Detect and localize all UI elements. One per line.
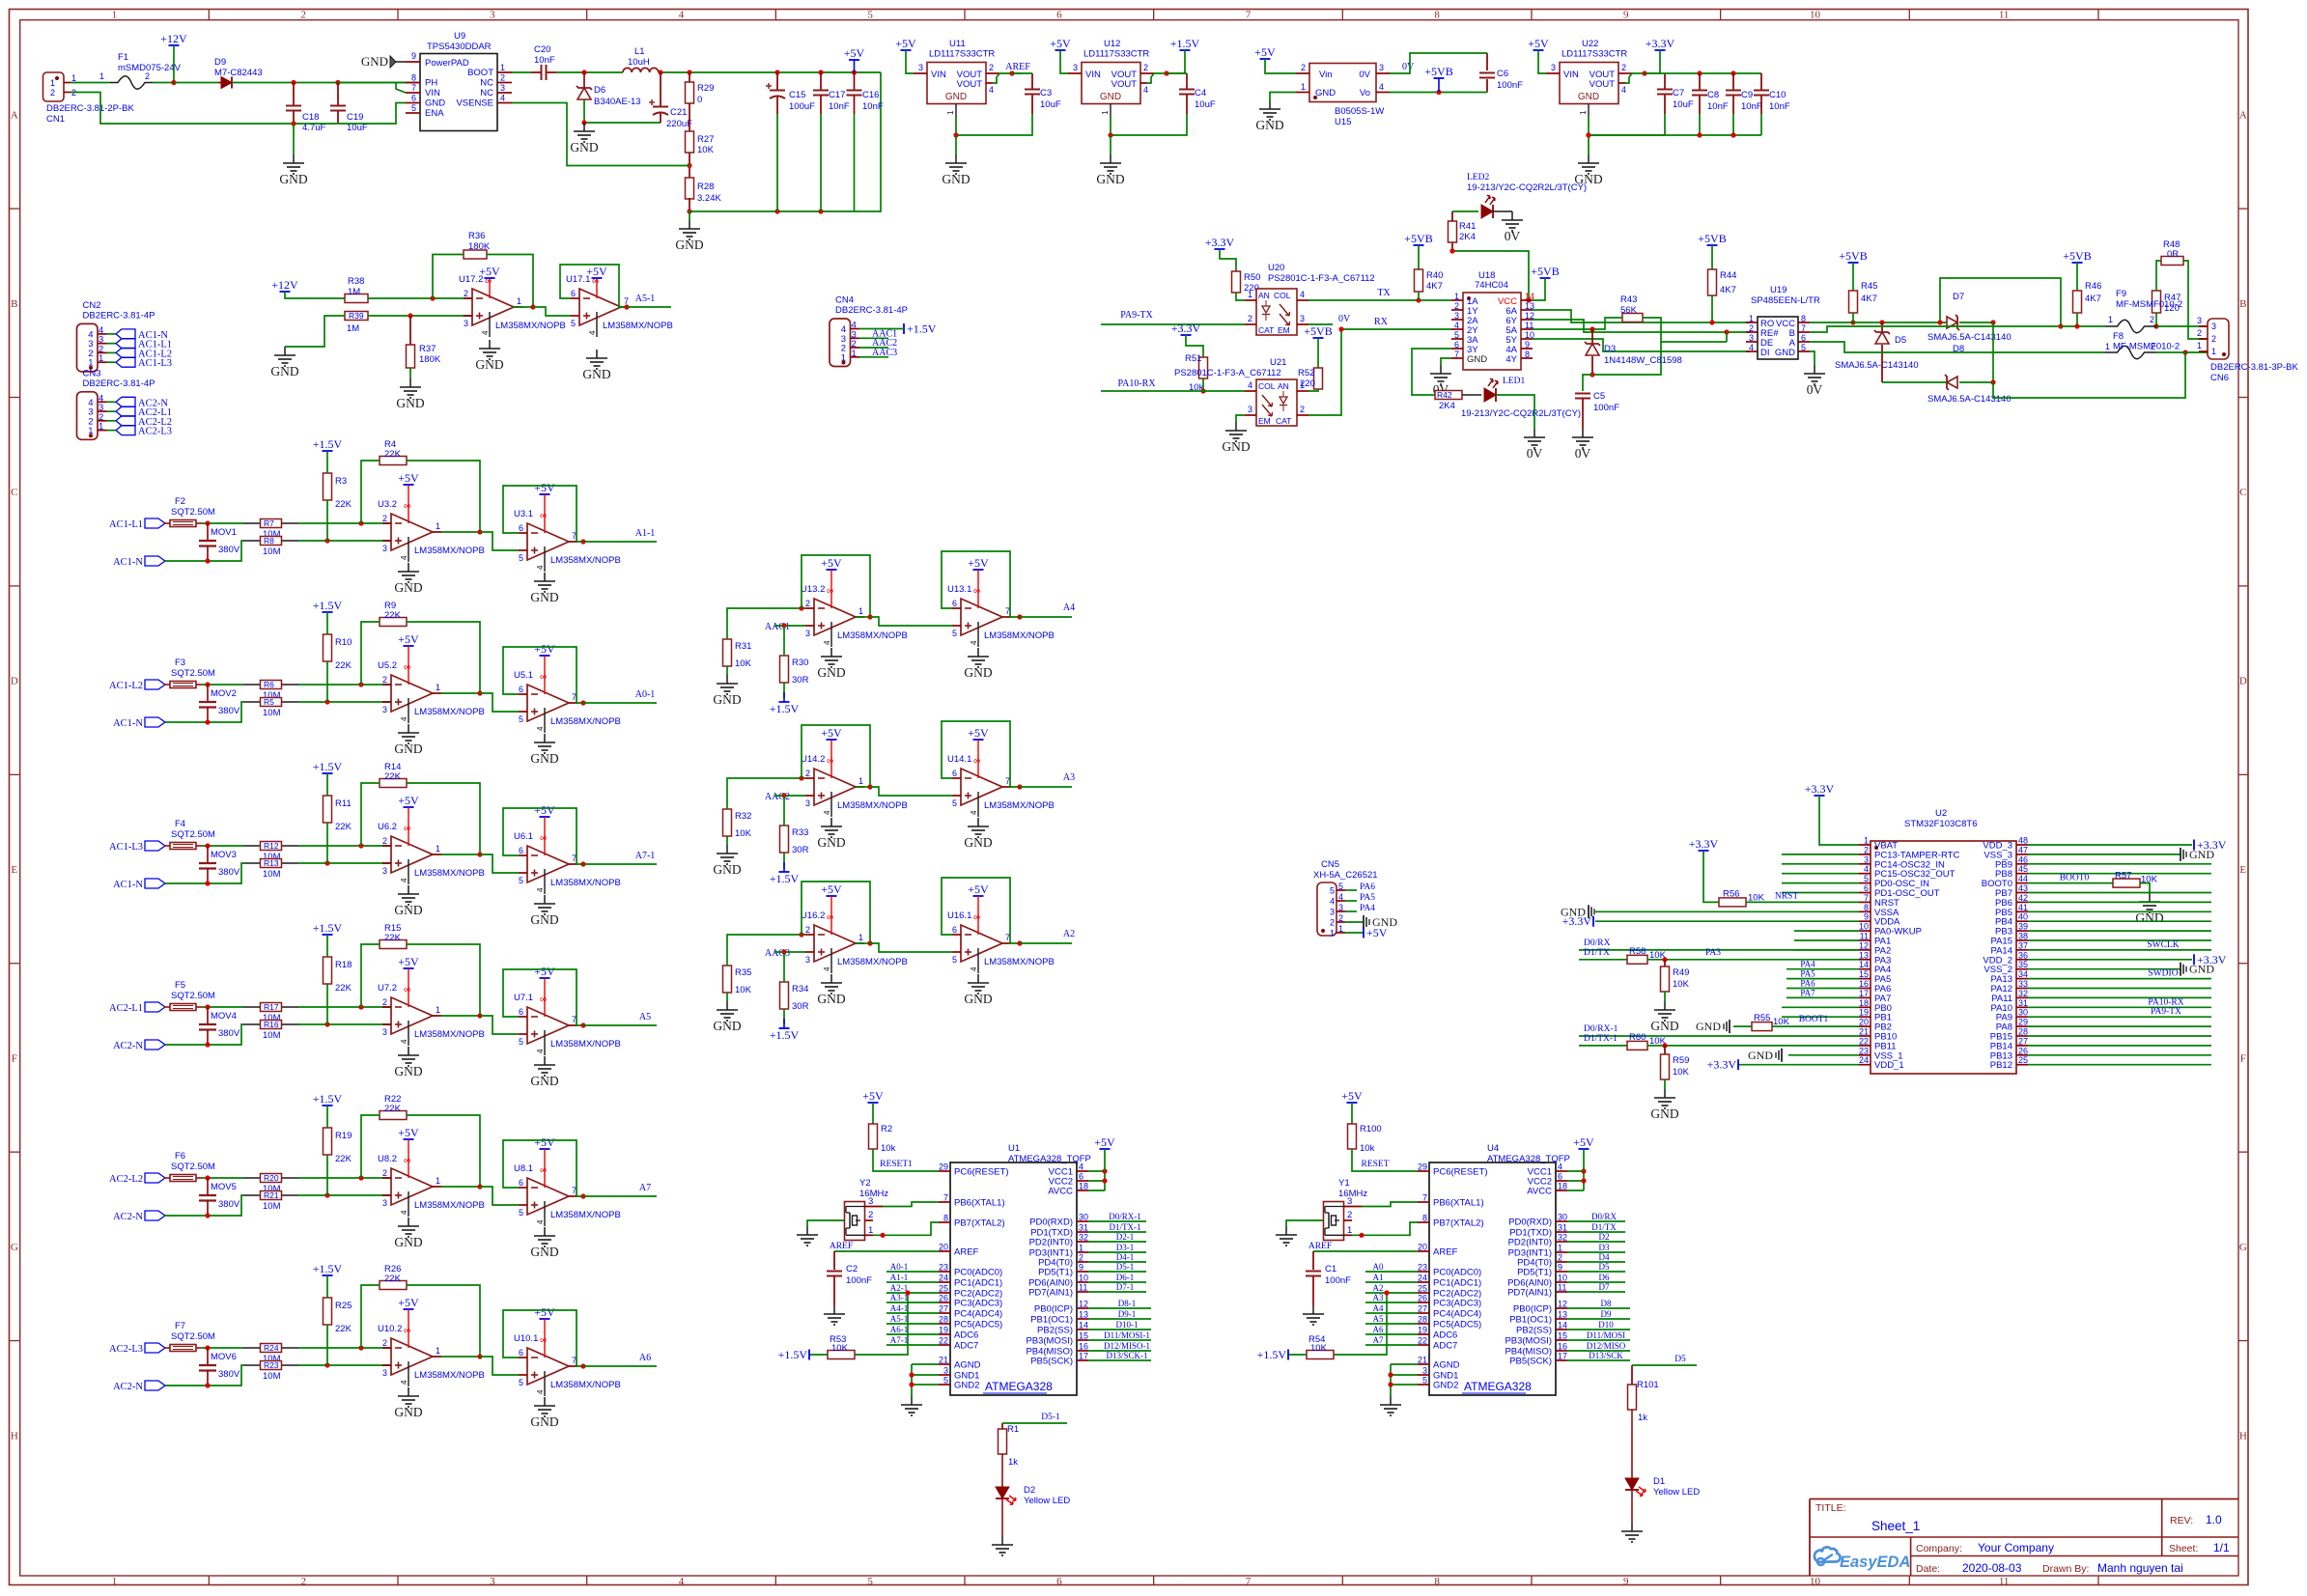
svg-text:+1.5V: +1.5V xyxy=(778,1348,808,1361)
svg-text:R52: R52 xyxy=(1298,368,1314,378)
svg-text:B: B xyxy=(2239,298,2246,310)
svg-text:0V: 0V xyxy=(1359,70,1370,80)
junction xyxy=(171,80,176,85)
wire xyxy=(70,93,338,125)
svg-text:22: 22 xyxy=(1418,1336,1427,1346)
wire xyxy=(407,783,480,854)
junction xyxy=(358,843,363,848)
capacitor C15 polarized xyxy=(766,72,815,114)
svg-text:R55: R55 xyxy=(1754,1013,1770,1023)
svg-text:19: 19 xyxy=(1859,1008,1869,1018)
svg-text:+5V: +5V xyxy=(862,1089,884,1103)
svg-text:PD5(T1): PD5(T1) xyxy=(1517,1268,1552,1278)
ground xyxy=(1255,100,1283,132)
svg-text:5: 5 xyxy=(1864,874,1869,883)
junction xyxy=(818,70,823,74)
net label RESET1 xyxy=(880,1160,913,1169)
svg-text:D: D xyxy=(11,676,18,687)
svg-text:9: 9 xyxy=(411,51,416,61)
svg-text:AREF: AREF xyxy=(1308,1242,1332,1251)
power +3.3V flag xyxy=(1205,236,1235,249)
wire xyxy=(1088,1350,1151,1352)
svg-text:GND: GND xyxy=(530,590,558,604)
svg-text:+1.5V: +1.5V xyxy=(313,921,343,935)
ground xyxy=(964,974,992,1006)
svg-text:+1.5V: +1.5V xyxy=(313,1092,343,1106)
net label SWDIO xyxy=(2148,969,2178,979)
svg-text:CN2: CN2 xyxy=(83,300,101,311)
title block xyxy=(1810,1499,2238,1577)
svg-text:GND: GND xyxy=(1748,1049,1773,1062)
junction xyxy=(581,120,586,125)
wire xyxy=(361,944,380,1007)
svg-text:D0/RX-1: D0/RX-1 xyxy=(1584,1024,1618,1034)
net label D2 xyxy=(1599,1232,1610,1242)
wire xyxy=(1782,892,1859,894)
wire xyxy=(1020,786,1072,788)
svg-text:R46: R46 xyxy=(2085,281,2101,292)
svg-text:VOUT: VOUT xyxy=(1111,79,1138,90)
wire xyxy=(1365,1312,1418,1314)
svg-text:+1.5V: +1.5V xyxy=(907,322,937,336)
ground xyxy=(530,1227,558,1259)
svg-text:R24: R24 xyxy=(264,1343,279,1353)
junction xyxy=(909,1372,914,1377)
resistor R59 xyxy=(1661,1046,1690,1079)
svg-text:7: 7 xyxy=(943,1193,948,1203)
net flag AC2-N xyxy=(113,1040,165,1051)
svg-text:R38: R38 xyxy=(348,276,364,287)
svg-text:MOV1: MOV1 xyxy=(211,527,237,538)
wire xyxy=(1567,1241,1625,1243)
IC U19 SP485EEN xyxy=(1746,285,1820,359)
svg-text:GND: GND xyxy=(1650,1106,1678,1121)
svg-text:R6: R6 xyxy=(264,680,274,689)
svg-text:LM358MX/NOPB: LM358MX/NOPB xyxy=(837,800,908,811)
svg-text:EasyEDA: EasyEDA xyxy=(1840,1554,1910,1571)
wire xyxy=(1220,249,1236,271)
power +5V flag xyxy=(534,1305,555,1319)
svg-text:VIN: VIN xyxy=(931,70,946,80)
svg-text:DB2ERC-3.81-4P: DB2ERC-3.81-4P xyxy=(83,310,155,321)
svg-text:AREF: AREF xyxy=(1433,1247,1458,1258)
wire xyxy=(855,1293,908,1355)
net flag AC1-N xyxy=(116,329,168,341)
svg-text:C16: C16 xyxy=(862,90,879,100)
ground 0V xyxy=(1524,429,1545,461)
wire xyxy=(2156,261,2161,291)
svg-text:3: 3 xyxy=(490,1576,495,1587)
power +5V flag xyxy=(968,726,989,740)
wire xyxy=(1647,959,1859,961)
junction xyxy=(781,949,786,954)
svg-text:C18: C18 xyxy=(302,112,319,123)
svg-text:28: 28 xyxy=(2018,1027,2028,1037)
svg-text:D10: D10 xyxy=(1598,1320,1614,1330)
svg-text:ATMEGA328: ATMEGA328 xyxy=(985,1380,1053,1393)
svg-text:3: 3 xyxy=(805,629,810,638)
wire xyxy=(441,692,480,694)
resistor R45 xyxy=(1849,281,1878,313)
wire xyxy=(338,103,406,125)
svg-text:U8.2: U8.2 xyxy=(378,1154,397,1164)
wire xyxy=(1787,978,1859,980)
wire xyxy=(1664,1079,1666,1089)
svg-text:U13.1: U13.1 xyxy=(947,584,971,595)
wire xyxy=(1186,335,1203,357)
wire xyxy=(689,198,690,211)
svg-text:LM358MX/NOPB: LM358MX/NOPB xyxy=(414,1200,485,1211)
svg-text:COL: COL xyxy=(1258,381,1276,391)
wire xyxy=(955,135,957,154)
junction xyxy=(205,1175,210,1180)
svg-text:2: 2 xyxy=(2150,315,2154,324)
svg-text:D13/SCK-1: D13/SCK-1 xyxy=(1106,1351,1147,1360)
svg-text:6: 6 xyxy=(952,599,957,608)
junction xyxy=(477,529,482,534)
svg-text:A3-1: A3-1 xyxy=(890,1293,909,1302)
svg-text:AGND: AGND xyxy=(954,1360,981,1371)
junction xyxy=(324,860,329,865)
ground xyxy=(530,895,558,927)
resistor R31 xyxy=(723,639,752,669)
svg-text:LD1117S33CTR: LD1117S33CTR xyxy=(1083,49,1149,60)
junction xyxy=(291,121,295,126)
wire xyxy=(243,1194,298,1196)
resistor R51 xyxy=(1185,353,1208,393)
wire xyxy=(1788,1054,1859,1056)
svg-text:1: 1 xyxy=(2105,342,2110,351)
svg-text:4: 4 xyxy=(1338,892,1343,902)
svg-text:7: 7 xyxy=(1454,350,1459,359)
svg-text:22K: 22K xyxy=(384,1274,402,1284)
svg-text:∞: ∞ xyxy=(540,672,547,683)
wire xyxy=(977,740,979,761)
wire xyxy=(165,1195,243,1216)
junction xyxy=(1586,132,1590,137)
svg-text:CN1: CN1 xyxy=(46,114,65,125)
svg-text:VIN: VIN xyxy=(425,88,440,98)
svg-text:5: 5 xyxy=(1338,882,1343,891)
connector CN6 xyxy=(2197,316,2298,383)
svg-text:2: 2 xyxy=(1558,1253,1562,1263)
svg-text:10K: 10K xyxy=(1673,979,1690,990)
svg-text:PB3(MOSI): PB3(MOSI) xyxy=(1026,1336,1073,1347)
svg-text:+3.3V: +3.3V xyxy=(1707,1058,1737,1072)
inductor L1 xyxy=(623,46,659,72)
power +5V flag xyxy=(895,37,916,50)
svg-text:25: 25 xyxy=(939,1284,948,1294)
svg-text:31: 31 xyxy=(1558,1223,1567,1233)
svg-text:A4: A4 xyxy=(1063,602,1075,613)
ground xyxy=(530,573,558,604)
svg-text:Y2: Y2 xyxy=(859,1178,871,1189)
svg-text:4: 4 xyxy=(536,565,545,570)
resistor R29 xyxy=(686,72,715,105)
wire xyxy=(1583,1149,1585,1171)
wire xyxy=(774,951,805,953)
svg-text:3: 3 xyxy=(500,83,505,93)
wire xyxy=(368,315,472,317)
IC U15 B0505S-1W xyxy=(1296,63,1390,127)
op-amp U8.1 xyxy=(514,1163,621,1226)
svg-text:A0: A0 xyxy=(1373,1262,1384,1272)
net flag AC1-N xyxy=(113,556,165,568)
svg-text:R44: R44 xyxy=(1720,270,1736,281)
diode D7 xyxy=(1947,292,1964,330)
wire xyxy=(298,1177,391,1179)
svg-text:25: 25 xyxy=(1418,1284,1427,1294)
svg-text:3: 3 xyxy=(382,705,387,714)
wire xyxy=(1236,415,1245,422)
wire xyxy=(1632,72,1654,74)
junction xyxy=(477,1354,482,1358)
svg-text:2: 2 xyxy=(382,675,387,685)
svg-text:3: 3 xyxy=(943,1366,948,1376)
wire xyxy=(480,1357,519,1375)
svg-text:8: 8 xyxy=(1434,10,1440,21)
svg-text:U7.1: U7.1 xyxy=(514,993,533,1003)
svg-text:∞: ∞ xyxy=(540,833,547,844)
wire xyxy=(689,211,690,220)
power +5V flag xyxy=(479,265,500,278)
svg-text:+1.5V: +1.5V xyxy=(313,760,343,773)
svg-text:EM: EM xyxy=(1258,416,1271,426)
wire xyxy=(1533,310,1750,322)
svg-text:45: 45 xyxy=(2018,864,2028,874)
net label D4-1 xyxy=(1116,1252,1135,1262)
svg-text:2: 2 xyxy=(1248,314,1252,323)
wire xyxy=(361,783,380,846)
svg-text:H: H xyxy=(2239,1430,2247,1442)
svg-text:U16.1: U16.1 xyxy=(947,910,971,921)
wire xyxy=(1088,1318,1151,1320)
net flag AC2-L3 xyxy=(116,426,172,437)
wire xyxy=(1631,1490,1633,1523)
svg-text:13: 13 xyxy=(1079,1310,1088,1320)
svg-text:2: 2 xyxy=(382,1168,387,1178)
svg-text:2: 2 xyxy=(300,10,306,21)
net label D2-1 xyxy=(1116,1232,1135,1242)
ground xyxy=(817,648,845,680)
wire xyxy=(1732,114,1734,135)
wire xyxy=(689,153,690,178)
svg-text:LM358MX/NOPB: LM358MX/NOPB xyxy=(603,321,673,331)
svg-text:GND: GND xyxy=(713,1019,741,1033)
svg-text:Company:: Company: xyxy=(1916,1543,1962,1554)
svg-text:4: 4 xyxy=(400,878,408,882)
wire xyxy=(1345,889,1357,891)
wire xyxy=(1661,341,1727,343)
ground flag xyxy=(1589,905,1594,918)
svg-text:1: 1 xyxy=(99,71,104,81)
svg-text:10uH: 10uH xyxy=(628,57,650,68)
wire xyxy=(2028,863,2211,865)
junction xyxy=(205,1213,210,1218)
svg-text:+3.3V: +3.3V xyxy=(1171,322,1201,335)
svg-text:22K: 22K xyxy=(335,499,352,510)
svg-text:R60: R60 xyxy=(1629,1032,1646,1043)
svg-text:GND: GND xyxy=(530,751,558,766)
wire xyxy=(2156,351,2208,353)
svg-text:+5VB: +5VB xyxy=(1424,65,1452,78)
svg-text:29: 29 xyxy=(1418,1162,1427,1172)
svg-text:8: 8 xyxy=(1801,314,1806,323)
junction xyxy=(580,1193,585,1198)
svg-text:PC6(RESET): PC6(RESET) xyxy=(1433,1167,1487,1178)
svg-text:XH-5A_C26521: XH-5A_C26521 xyxy=(1313,870,1378,881)
wire xyxy=(1567,1329,1630,1330)
wire xyxy=(433,255,464,299)
wire xyxy=(174,82,218,84)
IC U18 74HC04 xyxy=(1451,270,1534,370)
wire xyxy=(243,845,298,847)
svg-text:R100: R100 xyxy=(1360,1124,1382,1134)
junction xyxy=(291,80,295,85)
svg-text:VSENSE: VSENSE xyxy=(456,98,493,109)
wire xyxy=(165,1365,243,1386)
wire xyxy=(1020,942,1072,944)
svg-text:+5V: +5V xyxy=(821,726,842,740)
junction xyxy=(1581,1178,1586,1183)
svg-text:1: 1 xyxy=(852,349,857,359)
svg-text:AC2-L1: AC2-L1 xyxy=(109,1003,143,1014)
wire xyxy=(993,73,999,83)
resistor R57 xyxy=(2113,871,2158,888)
svg-text:LM358MX/NOPB: LM358MX/NOPB xyxy=(414,1370,485,1381)
svg-text:D2-1: D2-1 xyxy=(1116,1232,1135,1242)
junction xyxy=(205,719,210,724)
svg-text:11: 11 xyxy=(1999,10,2010,21)
svg-text:3: 3 xyxy=(1454,311,1459,321)
wire xyxy=(1088,1231,1146,1233)
power +3.3V flag xyxy=(1646,37,1675,50)
svg-text:5: 5 xyxy=(519,714,523,724)
svg-text:SP485EEN-L/TR: SP485EEN-L/TR xyxy=(1751,295,1820,306)
svg-text:6: 6 xyxy=(411,94,416,103)
ground xyxy=(530,1397,558,1429)
net flag AC1-L3 xyxy=(116,357,172,369)
op-amp U14.2 xyxy=(801,754,908,817)
svg-text:U13.2: U13.2 xyxy=(801,584,825,595)
svg-text:+1.5V: +1.5V xyxy=(313,599,343,612)
resistor R36 xyxy=(464,231,491,259)
svg-text:2: 2 xyxy=(989,63,994,72)
ground xyxy=(1621,1523,1643,1542)
svg-text:0V: 0V xyxy=(1505,229,1521,243)
diode D5 xyxy=(1874,330,1906,346)
svg-text:VOUT: VOUT xyxy=(1590,79,1616,90)
wire xyxy=(868,356,888,358)
svg-text:R5: R5 xyxy=(264,697,274,707)
svg-text:B: B xyxy=(11,298,17,310)
svg-text:9: 9 xyxy=(1079,1263,1083,1273)
wire xyxy=(1810,351,1815,365)
svg-text:AC1-L3: AC1-L3 xyxy=(138,358,172,369)
resistor R101 xyxy=(1628,1365,1659,1423)
svg-text:26: 26 xyxy=(939,1294,948,1303)
svg-text:0V: 0V xyxy=(1807,382,1823,397)
svg-text:+3.3V: +3.3V xyxy=(1689,837,1719,851)
svg-text:R33: R33 xyxy=(792,827,808,838)
svg-text:R25: R25 xyxy=(335,1301,352,1311)
net label A3 xyxy=(1063,772,1075,783)
net label D7 xyxy=(1599,1282,1610,1292)
wire xyxy=(1582,399,1584,429)
svg-text:3: 3 xyxy=(490,10,495,21)
svg-text:220: 220 xyxy=(1300,378,1315,389)
wire xyxy=(1452,210,1478,212)
svg-text:12: 12 xyxy=(1859,940,1869,950)
resistor R39 xyxy=(345,311,368,334)
svg-text:10K: 10K xyxy=(1310,1343,1328,1354)
svg-text:D9-1: D9-1 xyxy=(1118,1309,1137,1319)
svg-text:+5VB: +5VB xyxy=(1304,324,1332,338)
svg-text:16: 16 xyxy=(1079,1342,1088,1352)
svg-text:D3: D3 xyxy=(1599,1243,1610,1252)
resistor R28 xyxy=(686,178,722,204)
resistor R19 xyxy=(324,1128,352,1164)
svg-text:10uF: 10uF xyxy=(1195,99,1216,110)
junction xyxy=(580,1022,585,1027)
svg-text:6: 6 xyxy=(519,1348,523,1358)
svg-text:C19: C19 xyxy=(347,112,363,123)
svg-text:+5V: +5V xyxy=(534,1305,555,1319)
svg-text:A: A xyxy=(11,109,18,121)
op-amp U6.1 xyxy=(514,831,621,894)
wire xyxy=(441,531,480,533)
wire xyxy=(396,83,406,94)
ground xyxy=(817,818,845,850)
wire xyxy=(883,1202,939,1207)
svg-text:DB2ERC-3.81-4P: DB2ERC-3.81-4P xyxy=(83,378,155,389)
svg-text:42: 42 xyxy=(2018,893,2028,903)
svg-text:3: 3 xyxy=(1551,63,1556,72)
capacitor C5 xyxy=(1575,391,1619,413)
svg-text:D8-1: D8-1 xyxy=(1118,1299,1137,1308)
svg-text:+5V: +5V xyxy=(479,265,500,278)
svg-text:47: 47 xyxy=(2018,845,2028,854)
wire xyxy=(1390,1364,1392,1396)
svg-text:100nF: 100nF xyxy=(846,1275,872,1286)
wire xyxy=(173,45,175,83)
svg-text:10M: 10M xyxy=(263,546,281,557)
svg-text:+5VB: +5VB xyxy=(1698,232,1726,245)
svg-text:10M: 10M xyxy=(263,708,281,718)
svg-text:74HC04: 74HC04 xyxy=(1475,280,1508,291)
resistor R8 xyxy=(261,536,282,557)
ground xyxy=(582,350,610,381)
ground xyxy=(279,154,307,186)
svg-text:PS2801C-1-F3-A_C67112: PS2801C-1-F3-A_C67112 xyxy=(1268,273,1375,284)
varistor MOV3 xyxy=(199,846,240,883)
svg-text:3: 3 xyxy=(1749,333,1754,343)
net label PA5 xyxy=(1360,893,1375,903)
svg-text:Manh nguyen tai: Manh nguyen tai xyxy=(2097,1561,2183,1575)
power +5V flag xyxy=(398,794,419,807)
svg-text:2: 2 xyxy=(805,599,810,608)
junction xyxy=(1990,379,1995,384)
ground xyxy=(394,1387,422,1419)
junction xyxy=(358,520,363,525)
wire xyxy=(872,1103,874,1124)
svg-text:5: 5 xyxy=(1801,343,1806,352)
svg-text:F2: F2 xyxy=(175,496,185,507)
wire xyxy=(1451,211,1453,221)
svg-text:R18: R18 xyxy=(335,960,352,970)
svg-text:R50: R50 xyxy=(1244,272,1260,283)
wire xyxy=(1567,1190,1584,1191)
